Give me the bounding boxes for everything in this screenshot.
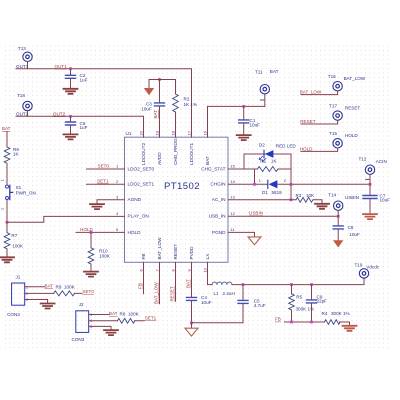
svg-text:PWR_ON: PWR_ON <box>16 191 36 196</box>
wire pin 2 stub with net label SET1 <box>87 183 125 185</box>
svg-text:D1: D1 <box>262 190 268 195</box>
wire T15 stub and net label HOLD <box>301 148 338 151</box>
wire pin 8 RESET stub <box>175 262 177 301</box>
connector J1 CON3 <box>7 274 28 316</box>
svg-text:CON3: CON3 <box>72 337 85 342</box>
wire pin 6 FB stub <box>143 262 145 294</box>
svg-text:FB: FB <box>141 254 146 260</box>
svg-text:BAT: BAT <box>45 283 54 288</box>
node junction C3 top <box>158 78 160 80</box>
test point T11 BAT <box>255 69 279 100</box>
svg-text:CON3: CON3 <box>7 312 20 317</box>
svg-text:HOLD: HOLD <box>128 230 142 235</box>
wire T18 stub <box>27 111 29 117</box>
svg-text:T17: T17 <box>329 104 337 109</box>
svg-text:D2: D2 <box>259 142 265 147</box>
svg-text:AC_IN: AC_IN <box>212 197 226 202</box>
svg-text:RESET: RESET <box>300 119 316 124</box>
svg-text:2: 2 <box>284 178 286 183</box>
svg-text:FB: FB <box>275 317 281 322</box>
resistor R5 300K 1% <box>289 285 314 322</box>
wire T17 stub and net label RESET <box>301 120 338 124</box>
resistor R2 1K 1% <box>173 80 197 138</box>
ground after R3 <box>315 204 329 209</box>
svg-text:AGND: AGND <box>128 197 142 202</box>
diode D1 5819 <box>259 178 286 195</box>
svg-text:R4: R4 <box>322 311 328 316</box>
svg-text:1: 1 <box>259 178 261 183</box>
wire ground bracket above C3/R2 <box>149 80 176 88</box>
svg-text:15: 15 <box>231 164 235 169</box>
svg-text:10uF: 10uF <box>201 300 212 305</box>
svg-text:18: 18 <box>170 131 175 135</box>
svg-text:USBIN: USBIN <box>345 195 359 200</box>
wire to pin 4 PLAY_ON <box>7 216 125 222</box>
node junction OUT1/C2 <box>69 67 72 70</box>
svg-text:5: 5 <box>116 227 118 232</box>
wire J2 pin 2 to R8 <box>89 320 145 322</box>
svg-text:USB_IN: USB_IN <box>209 214 226 219</box>
resistor R8 100K <box>117 312 139 324</box>
node junction R5 bottom <box>290 321 293 324</box>
svg-text:1K: 1K <box>271 159 278 164</box>
svg-text:PVDD: PVDD <box>189 246 194 260</box>
svg-text:T16: T16 <box>328 74 336 79</box>
svg-text:J1: J1 <box>16 274 21 279</box>
svg-text:BAT: BAT <box>205 156 210 165</box>
wire pin 5 HOLD stub <box>76 231 125 233</box>
svg-text:19: 19 <box>154 131 159 135</box>
svg-text:1: 1 <box>0 179 4 181</box>
svg-text:LDOOUT1: LDOOUT1 <box>189 142 194 165</box>
node junction C4 ground <box>190 321 193 324</box>
capacitor C8 <box>333 216 360 240</box>
wire pin 9 PVDD down to C4 <box>191 262 193 297</box>
node junction AC_IN <box>290 198 293 201</box>
svg-text:OUT2: OUT2 <box>53 111 66 116</box>
wire pin 7 BAT_LOW stub <box>159 262 161 304</box>
svg-text:R5: R5 <box>296 295 302 300</box>
svg-text:PT1502: PT1502 <box>164 181 200 192</box>
node junction OUT2/C6 <box>69 115 72 118</box>
svg-text:10uF: 10uF <box>349 232 360 237</box>
node junction C9 bottom <box>310 321 313 324</box>
svg-text:3: 3 <box>90 325 92 329</box>
resistor R6 1K <box>4 147 19 163</box>
capacitor C4 <box>187 295 212 323</box>
svg-text:1: 1 <box>116 164 118 169</box>
ground below C7 <box>363 214 377 219</box>
svg-text:16: 16 <box>202 131 207 135</box>
svg-text:FB: FB <box>138 283 143 289</box>
svg-text:22pF: 22pF <box>317 299 328 304</box>
resistor R3 10K <box>296 193 316 202</box>
wire pin 3 AGND <box>97 200 125 204</box>
wire pin 12 USB_IN row <box>228 215 338 217</box>
svg-text:HOLD: HOLD <box>300 146 313 151</box>
svg-text:T11: T11 <box>255 69 263 74</box>
svg-text:BAT: BAT <box>109 311 118 316</box>
svg-text:T14: T14 <box>328 193 336 198</box>
svg-text:SET1: SET1 <box>97 178 109 183</box>
svg-text:Vdcdc: Vdcdc <box>366 265 379 270</box>
svg-text:T15: T15 <box>329 131 337 136</box>
svg-text:SET0: SET0 <box>82 289 94 294</box>
wire D2 branch rectangle <box>244 154 291 184</box>
resistor R9 100K <box>54 284 76 296</box>
wire pin 14 CHGIN row <box>228 183 370 185</box>
wire T14 stub <box>337 211 339 217</box>
ground after R4 <box>343 326 357 331</box>
svg-text:2: 2 <box>0 208 4 210</box>
svg-text:T19: T19 <box>355 263 363 268</box>
wire J2 pin 3 to ground <box>89 326 111 329</box>
wire pin 10 LX to L1 <box>208 262 213 284</box>
wire net OUT1 row to pin 17 <box>16 69 192 138</box>
ground J2 <box>104 330 118 335</box>
node junction USB_IN/T14 <box>337 215 340 218</box>
svg-text:2: 2 <box>116 179 118 184</box>
node junction BAT/C1 <box>242 105 245 108</box>
test point T19 Vdcdc <box>355 263 380 279</box>
svg-text:BAT_LOW: BAT_LOW <box>300 90 322 95</box>
svg-text:R8: R8 <box>120 312 126 317</box>
svg-text:12: 12 <box>231 211 235 216</box>
svg-text:AVDD: AVDD <box>157 152 162 165</box>
svg-text:BAT: BAT <box>186 279 191 288</box>
svg-text:T12: T12 <box>359 156 367 161</box>
svg-text:J2: J2 <box>79 302 84 307</box>
wire J1 pin 2 to R9 <box>25 292 82 294</box>
node junction R5 top <box>290 283 293 286</box>
svg-text:13: 13 <box>231 194 235 199</box>
wire Vdcdc rail to T19 <box>232 278 364 285</box>
capacitor C1 <box>239 106 260 134</box>
svg-text:1uF: 1uF <box>80 125 88 130</box>
resistor R10 100K <box>88 232 111 271</box>
capacitor C7 <box>363 184 390 213</box>
wire pin 16 BAT row <box>208 106 265 137</box>
svg-text:10uF: 10uF <box>141 107 152 112</box>
resistor R4 300K 1% <box>322 311 350 325</box>
svg-text:HOLD: HOLD <box>345 133 358 138</box>
svg-text:9: 9 <box>186 269 191 271</box>
ground open triangle PGND <box>248 237 261 245</box>
test point T18 <box>16 93 32 117</box>
svg-text:10uF: 10uF <box>250 122 261 127</box>
capacitor C2 <box>66 69 88 89</box>
node junction HOLD/R10 <box>90 231 93 234</box>
U1 pin numbers right 15-11 <box>231 164 236 232</box>
wire pin 13 AC_IN row <box>228 200 322 204</box>
svg-text:10uF: 10uF <box>380 198 391 203</box>
svg-text:CHGIN: CHGIN <box>210 182 225 187</box>
svg-text:LX: LX <box>205 253 210 260</box>
svg-text:PLAY_ON: PLAY_ON <box>128 214 149 219</box>
svg-text:RED LED: RED LED <box>276 143 297 148</box>
svg-text:PGND: PGND <box>212 230 226 235</box>
wire BAT rail down to R6 <box>6 132 8 148</box>
svg-text:7: 7 <box>154 269 159 271</box>
U1 pin numbers bottom 6-10 <box>138 267 207 272</box>
svg-text:BAT: BAT <box>270 69 279 74</box>
wire J2 pin 1 BAT <box>89 314 109 316</box>
wire S1 to junction <box>6 200 8 222</box>
svg-text:100K: 100K <box>12 243 24 248</box>
svg-text:4.7uF: 4.7uF <box>254 303 266 308</box>
svg-text:USBIN: USBIN <box>249 211 263 216</box>
svg-text:RESET: RESET <box>173 244 178 260</box>
test point T16 BAT_LOW <box>328 74 366 91</box>
svg-text:C8: C8 <box>348 225 354 230</box>
svg-text:R3: R3 <box>296 193 302 198</box>
switch S1 PWR_ON <box>0 179 35 210</box>
wire pin 15 CHG_STAT row with R1 <box>228 168 291 170</box>
capacitor C3 <box>141 80 164 138</box>
svg-text:T18: T18 <box>17 93 25 98</box>
ground arrow below C8 <box>333 240 343 247</box>
svg-text:L1: L1 <box>214 291 220 296</box>
svg-text:CHG_STAT: CHG_STAT <box>201 166 225 171</box>
svg-text:6: 6 <box>138 269 143 271</box>
capacitor C5 <box>238 285 266 323</box>
wire T12 stub <box>369 175 371 185</box>
wire net OUT2 row to pin 20 <box>16 116 144 137</box>
svg-text:8: 8 <box>170 269 175 271</box>
U1 pin numbers top 20-16 <box>138 130 207 135</box>
test point T17 RESET <box>329 104 360 121</box>
svg-text:BAT: BAT <box>2 126 11 131</box>
svg-text:SET0: SET0 <box>98 164 110 169</box>
ground below C1 <box>237 135 251 140</box>
wire T16 stub and net label BAT_LOW <box>301 91 338 95</box>
svg-text:S1: S1 <box>16 185 22 190</box>
svg-text:BAT_LOW: BAT_LOW <box>344 76 366 81</box>
op-amp/PMIC U1 PT1502 body <box>125 131 229 262</box>
svg-text:2.2uH: 2.2uH <box>223 291 235 296</box>
svg-text:BAT_LOW: BAT_LOW <box>157 237 162 260</box>
svg-text:SET1: SET1 <box>145 315 157 320</box>
ground arrow (top middle) <box>144 88 154 95</box>
svg-text:100K: 100K <box>128 312 140 317</box>
svg-text:11: 11 <box>231 227 235 232</box>
wire FB row <box>285 322 350 325</box>
ground below R10 <box>84 272 98 277</box>
svg-text:R9: R9 <box>56 284 62 289</box>
U1 pin numbers left 1-5 <box>116 164 119 232</box>
svg-text:300K 1%: 300K 1% <box>331 311 350 316</box>
svg-text:LDO2_SET0: LDO2_SET0 <box>128 166 155 171</box>
wire R6 to S1 <box>6 164 8 185</box>
LED D2 RED LED <box>259 142 296 162</box>
wire J1 pin 3 to ground <box>25 300 48 304</box>
test point T15 HOLD <box>329 131 358 148</box>
resistor R7 100K <box>4 222 24 257</box>
test point T13 <box>16 46 32 69</box>
svg-text:1K: 1K <box>13 152 20 157</box>
svg-text:1uF: 1uF <box>80 78 88 83</box>
svg-text:OUT1: OUT1 <box>55 64 68 69</box>
capacitor C9 22pF <box>307 285 328 322</box>
wire J1 pin 1 BAT <box>25 286 45 288</box>
svg-text:100K: 100K <box>64 284 76 289</box>
svg-text:LDOOUT2: LDOOUT2 <box>141 142 146 165</box>
ground open triangle below C4 <box>185 328 198 336</box>
svg-text:RESET: RESET <box>345 106 361 111</box>
ground below C2 <box>64 89 78 94</box>
node junction C9 top <box>310 283 313 286</box>
svg-text:T13: T13 <box>18 46 26 51</box>
node junction CHGIN/D2 right <box>290 183 293 186</box>
svg-text:R2: R2 <box>184 96 190 101</box>
svg-text:RESET: RESET <box>170 286 175 302</box>
node junction PLAY_ON/R7 <box>6 221 9 224</box>
wire AC_IN tie to CHGIN <box>290 184 292 200</box>
wire T11 stub <box>264 94 266 106</box>
svg-text:LDO2_SET1: LDO2_SET1 <box>128 182 155 187</box>
svg-text:1K 1%: 1K 1% <box>184 102 198 107</box>
ground J1 <box>41 304 55 309</box>
ground below C6 <box>64 134 78 139</box>
ground below R7 <box>0 257 14 262</box>
ground AGND <box>90 204 104 209</box>
node junction AC_IN/T12 <box>369 183 372 186</box>
svg-text:3: 3 <box>116 194 118 199</box>
svg-text:ACIN: ACIN <box>376 159 387 164</box>
resistor R1 1K <box>258 159 278 172</box>
svg-text:10K: 10K <box>306 193 315 198</box>
svg-text:BAT: BAT <box>153 110 158 119</box>
test point T12 ACIN <box>359 156 387 179</box>
svg-text:5819: 5819 <box>272 190 283 195</box>
svg-text:BAT_LOW: BAT_LOW <box>154 282 159 304</box>
wire T13 stub <box>27 62 29 69</box>
inductor L1 2.2uH <box>212 282 235 296</box>
wire ground rail C4 to C5 <box>192 323 244 328</box>
svg-text:CHG_PROG: CHG_PROG <box>173 138 178 165</box>
test point T14 USBIN <box>328 193 359 211</box>
svg-text:17: 17 <box>186 131 191 135</box>
wire pin 11 PGND <box>228 232 255 236</box>
svg-text:R7: R7 <box>11 233 17 238</box>
connector J2 CON3 <box>72 302 93 342</box>
svg-text:U1: U1 <box>126 131 132 136</box>
node junction CHGIN/D2 left <box>253 183 256 186</box>
node junction C5 top <box>242 283 245 286</box>
capacitor C6 <box>66 116 88 134</box>
svg-text:100K: 100K <box>99 254 111 259</box>
wire pin 1 stub with net label SET0 <box>87 168 125 170</box>
